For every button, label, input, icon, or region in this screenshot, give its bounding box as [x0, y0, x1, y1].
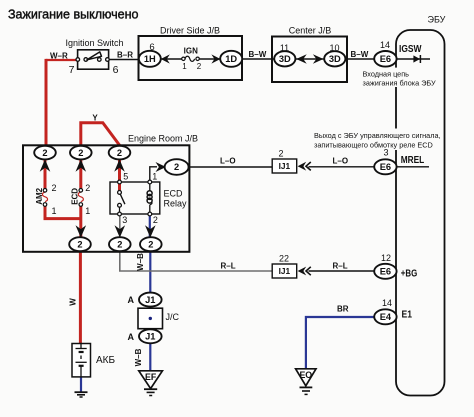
svg-text:J1: J1 — [145, 295, 155, 305]
svg-text:W: W — [69, 298, 78, 306]
svg-text:Выход с ЭБУ управляющего сигна: Выход с ЭБУ управляющего сигнала, — [314, 131, 441, 140]
svg-text:2: 2 — [78, 148, 83, 158]
svg-text:Входная цепь: Входная цепь — [363, 70, 410, 79]
svg-text:Ignition Switch: Ignition Switch — [65, 38, 123, 48]
svg-text:MREL: MREL — [401, 155, 425, 166]
svg-text:EF: EF — [145, 372, 157, 382]
svg-text:E6: E6 — [380, 162, 391, 172]
svg-text:1D: 1D — [225, 54, 237, 64]
svg-text:2: 2 — [52, 183, 57, 193]
svg-text:7: 7 — [69, 64, 75, 76]
svg-text:11: 11 — [280, 43, 289, 53]
svg-text:2: 2 — [117, 148, 122, 158]
svg-text:W–B: W–B — [134, 348, 143, 366]
svg-text:ECD: ECD — [71, 188, 80, 205]
svg-text:6: 6 — [113, 64, 119, 76]
svg-text:A: A — [128, 295, 135, 305]
svg-text:IGSW: IGSW — [399, 44, 422, 55]
svg-text:IJ1: IJ1 — [279, 161, 291, 171]
svg-text:2: 2 — [77, 239, 82, 249]
svg-text:IJ1: IJ1 — [279, 266, 291, 276]
svg-text:EO: EO — [299, 370, 312, 380]
svg-text:E6: E6 — [380, 267, 391, 277]
svg-text:ЭБУ: ЭБУ — [428, 15, 446, 25]
svg-text:R–L: R–L — [333, 262, 348, 271]
svg-text:Y: Y — [92, 114, 98, 123]
svg-text:3: 3 — [122, 215, 127, 225]
svg-text:запитывающего обмотку реле ECD: запитывающего обмотку реле ECD — [314, 141, 433, 150]
svg-text:B–R: B–R — [117, 51, 133, 60]
svg-text:J1: J1 — [145, 332, 155, 342]
svg-text:2: 2 — [197, 62, 202, 71]
svg-text:+BG: +BG — [401, 268, 418, 279]
svg-text:1: 1 — [52, 206, 57, 216]
svg-text:2: 2 — [174, 162, 179, 172]
svg-text:12: 12 — [381, 253, 391, 263]
svg-text:Relay: Relay — [164, 199, 188, 209]
svg-text:A: A — [128, 332, 135, 342]
svg-text:5: 5 — [123, 172, 128, 182]
svg-text:зажигания блока ЭБУ: зажигания блока ЭБУ — [363, 79, 437, 88]
svg-text:3D: 3D — [329, 54, 341, 64]
svg-text:E1: E1 — [402, 309, 413, 320]
svg-text:14: 14 — [382, 298, 392, 308]
svg-text:3D: 3D — [279, 54, 291, 64]
svg-text:2: 2 — [279, 149, 284, 159]
svg-text:R–L: R–L — [221, 262, 236, 271]
svg-text:B–W: B–W — [351, 50, 369, 59]
svg-text:6: 6 — [149, 42, 154, 53]
svg-text:1: 1 — [85, 206, 90, 216]
svg-text:Center J/B: Center J/B — [289, 26, 332, 36]
svg-text:L–O: L–O — [333, 157, 349, 166]
svg-text:E4: E4 — [380, 312, 392, 322]
svg-text:W–R: W–R — [50, 51, 68, 60]
svg-text:2: 2 — [148, 239, 153, 249]
svg-text:1H: 1H — [144, 54, 156, 64]
svg-text:1: 1 — [152, 172, 157, 182]
svg-text:Engine Room J/B: Engine Room J/B — [128, 134, 198, 144]
svg-text:IGN: IGN — [184, 47, 198, 56]
svg-text:J/C: J/C — [166, 312, 180, 322]
svg-text:2: 2 — [42, 148, 47, 158]
svg-text:Зажигание выключено: Зажигание выключено — [8, 7, 139, 22]
svg-text:Driver Side J/B: Driver Side J/B — [160, 26, 220, 36]
svg-text:BR: BR — [337, 305, 349, 314]
svg-text:1: 1 — [182, 62, 187, 71]
svg-text:B–W: B–W — [249, 50, 267, 59]
svg-text:E6: E6 — [380, 54, 391, 64]
svg-text:2: 2 — [85, 183, 90, 193]
svg-text:W–B: W–B — [136, 253, 145, 271]
svg-text:14: 14 — [380, 40, 390, 50]
svg-text:L–O: L–O — [220, 157, 236, 166]
svg-text:AM2: AM2 — [35, 187, 44, 204]
svg-text:АКБ: АКБ — [96, 355, 115, 366]
svg-text:22: 22 — [279, 254, 289, 264]
svg-text:ECD: ECD — [164, 189, 184, 199]
svg-text:2: 2 — [153, 215, 158, 225]
svg-text:2: 2 — [117, 239, 122, 249]
svg-text:10: 10 — [329, 43, 339, 53]
